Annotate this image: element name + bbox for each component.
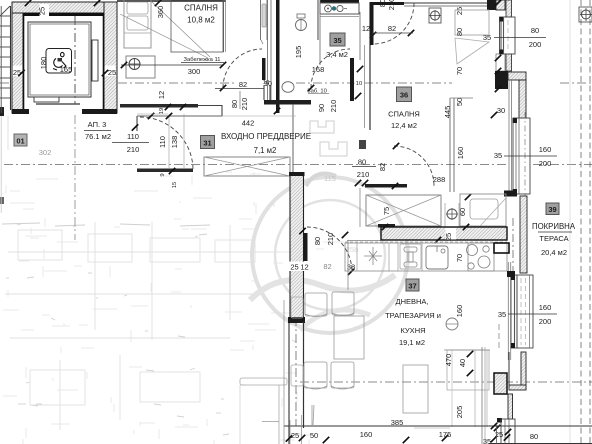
svg-text:70: 70: [455, 67, 464, 75]
svg-text:210: 210: [329, 100, 338, 113]
label 39: [546, 203, 559, 215]
svg-text:288: 288: [433, 175, 446, 184]
svg-text:442: 442: [242, 119, 255, 128]
svg-text:80: 80: [378, 0, 387, 7]
hatched pier L: [508, 72, 526, 80]
toilet bathroom: [296, 20, 307, 31]
svg-text:25: 25: [108, 68, 116, 77]
hinge block: [504, 191, 517, 197]
svg-text:160: 160: [456, 147, 465, 160]
svg-text:36: 36: [400, 91, 408, 100]
wall bathroom west: [276, 0, 280, 113]
svg-text:195: 195: [294, 46, 303, 59]
door arc room36 south: [394, 146, 434, 186]
sink oval: [282, 82, 294, 93]
elevator shaft walls (hatched): [12, 2, 23, 113]
svg-text:ТРАПЕЗАРИЯ и: ТРАПЕЗАРИЯ и: [385, 311, 441, 320]
svg-text:37: 37: [408, 282, 416, 291]
svg-text:ПОКРИВНА: ПОКРИВНА: [532, 222, 576, 231]
wall block top right: [487, 0, 496, 10]
bathroom door arc: [311, 49, 350, 88]
svg-text:12: 12: [157, 91, 166, 99]
svg-text:210: 210: [326, 233, 335, 246]
svg-text:200: 200: [529, 40, 542, 49]
svg-text:01: 01: [16, 137, 24, 146]
sofa right: [447, 350, 489, 390]
svg-text:35: 35: [483, 33, 491, 42]
elevator rail: [92, 40, 98, 81]
wall bedroom1 south: [120, 104, 198, 108]
svg-text:175: 175: [439, 430, 452, 439]
thin wall lines left of sofa: [481, 347, 483, 444]
svg-text:82: 82: [239, 80, 247, 89]
svg-text:40: 40: [458, 359, 467, 367]
hatched pier lower: [494, 373, 507, 394]
column symbol: [129, 59, 140, 70]
wall room36 south: [365, 184, 407, 188]
chairs: [305, 293, 327, 316]
svg-text:80: 80: [455, 28, 464, 36]
svg-text:470: 470: [444, 354, 453, 367]
svg-text:160: 160: [539, 145, 552, 154]
svg-text:35: 35: [483, 437, 491, 444]
wheelchair icon: [53, 52, 66, 70]
label 01: [14, 134, 27, 146]
label 35: [330, 33, 345, 46]
svg-text:25: 25: [455, 7, 464, 15]
dim 82 door: [215, 88, 264, 90]
svg-text:25: 25: [290, 263, 298, 272]
sink: [426, 246, 448, 269]
shelf left: [240, 378, 287, 385]
dim line 300: [121, 64, 224, 66]
svg-text:300: 300: [188, 67, 201, 76]
svg-text:115: 115: [324, 174, 336, 183]
plant: [311, 405, 313, 425]
door leaf kitchen: [304, 233, 308, 261]
wall thin room36 east: [449, 98, 451, 192]
svg-text:80: 80: [358, 158, 366, 167]
bed room36: [460, 194, 506, 226]
wall x296 vertical (hatched): [290, 175, 304, 322]
svg-text:12: 12: [362, 24, 370, 33]
room outline bedroom1: [171, 0, 223, 52]
svg-text:СПАЛНЯ: СПАЛНЯ: [388, 110, 420, 119]
window2 room36: [508, 80, 510, 194]
wall room36 west lower: [359, 140, 366, 149]
exterior top wall: [117, 0, 226, 2]
svg-text:СПАЛНЯ: СПАЛНЯ: [184, 4, 218, 13]
bottom dimension line: [284, 425, 592, 427]
axis line C horizontal: [300, 381, 592, 383]
terrace dashed boundary lines: [569, 0, 571, 444]
svg-text:180: 180: [39, 57, 48, 70]
hall door arc: [140, 117, 193, 170]
hatch strip below: [508, 394, 513, 419]
svg-text:80: 80: [531, 26, 539, 35]
faint ghost structures: [5, 222, 280, 430]
svg-text:160: 160: [455, 305, 464, 318]
texts 25 12: [289, 262, 310, 272]
svg-text:385: 385: [391, 418, 404, 427]
svg-text:200: 200: [539, 159, 552, 168]
black block: [497, 418, 502, 423]
svg-text:50: 50: [455, 98, 464, 106]
svg-text:70: 70: [455, 254, 464, 262]
svg-text:82: 82: [323, 262, 331, 271]
svg-text:110: 110: [158, 136, 167, 148]
svg-text:39: 39: [548, 205, 556, 214]
column grid marker right top: [579, 7, 592, 22]
wall living west: [303, 322, 305, 428]
svg-text:7,1 м2: 7,1 м2: [254, 146, 277, 155]
faint scan noise: [3, 172, 344, 444]
label 31: [201, 136, 215, 149]
wall jog hatch: [521, 352, 526, 389]
bedroom door jamb: [262, 58, 266, 80]
kitchen hatched counter: [381, 227, 507, 240]
hatch strip below window2: [520, 196, 527, 273]
leader lines to note: [120, 14, 208, 58]
kitchen cabinets: [345, 243, 507, 271]
svg-text:ВХОДНО ПРЕДДВЕРИЕ: ВХОДНО ПРЕДДВЕРИЕ: [221, 132, 311, 141]
entrance door line: [137, 113, 168, 115]
dishwasher: [364, 247, 382, 265]
window1: [500, 17, 516, 54]
svg-text:75: 75: [382, 207, 391, 215]
svg-text:АП. 3: АП. 3: [88, 120, 107, 129]
wall room36 north: [370, 2, 404, 5]
svg-text:9: 9: [160, 173, 166, 176]
coffee table: [403, 365, 428, 413]
bathroom south wall: [264, 100, 311, 105]
svg-text:80: 80: [530, 432, 538, 441]
label 36: [397, 87, 412, 102]
svg-text:19: 19: [159, 108, 165, 114]
svg-text:138: 138: [170, 136, 179, 149]
shaft inner thick edge: [23, 13, 104, 16]
svg-text:30: 30: [497, 106, 505, 115]
svg-text:10,8 м2: 10,8 м2: [187, 16, 215, 25]
svg-text:КУХНЯ: КУХНЯ: [400, 326, 425, 335]
wall under wardrobe: [378, 224, 395, 228]
svg-text:12: 12: [300, 263, 308, 272]
dining table: [334, 316, 364, 359]
svg-text:445: 445: [443, 106, 452, 119]
svg-text:19,1 м2: 19,1 м2: [399, 338, 425, 347]
oven unit: [494, 243, 509, 253]
shaft bottom wall caps: [12, 109, 29, 114]
svg-text:205: 205: [455, 406, 464, 419]
svg-text:76.1 м2: 76.1 м2: [85, 132, 111, 141]
bathroom inner wall: [317, 0, 319, 40]
svg-text:25: 25: [291, 431, 299, 440]
hall wardrobe with X: [204, 157, 290, 176]
svg-text:302: 302: [39, 148, 52, 157]
door arc room36: [374, 3, 414, 44]
fridge: [400, 244, 421, 269]
axis vertical x296: [295, 300, 297, 426]
svg-text:10: 10: [263, 80, 269, 86]
svg-text:210: 210: [240, 98, 249, 111]
svg-text:10: 10: [356, 81, 362, 87]
svg-text:210: 210: [387, 0, 396, 10]
wall 12 vertical: [370, 2, 374, 45]
svg-text:50: 50: [310, 431, 318, 440]
axis vertical x75: [74, 16, 76, 104]
svg-text:31: 31: [203, 139, 211, 148]
bedroom door arc: [223, 49, 262, 88]
axis line A horizontal: [0, 82, 22, 84]
svg-text:35: 35: [494, 151, 502, 160]
svg-text:15: 15: [172, 182, 178, 188]
window3 terrace door: [507, 262, 509, 360]
svg-text:210: 210: [127, 145, 140, 154]
svg-text:82: 82: [378, 163, 387, 171]
svg-text:35: 35: [333, 36, 341, 45]
desk near window: [455, 10, 489, 35]
wc wall: [223, 0, 225, 52]
thin wall lines wc east: [267, 0, 269, 103]
svg-text:ДНЕВНА,: ДНЕВНА,: [395, 297, 428, 306]
svg-text:60: 60: [458, 208, 467, 216]
wheelchair symbol box: [46, 49, 72, 74]
svg-text:ТЕРАСА: ТЕРАСА: [539, 234, 568, 243]
elevator door panel: [34, 97, 59, 102]
watermark stamp: [250, 121, 408, 333]
bed bedroom1: [124, 0, 151, 48]
wall east bathroom: [350, 58, 354, 101]
svg-text:12,4 м2: 12,4 м2: [391, 121, 417, 130]
wall block mid: [495, 71, 508, 89]
column marker bed: [447, 209, 457, 219]
column marker top: [429, 8, 441, 23]
wc door leaf vertical: [260, 0, 262, 40]
stove: [468, 243, 494, 271]
window bottom: [501, 419, 515, 444]
svg-text:200: 200: [539, 317, 552, 326]
bathroom top wall: [320, 0, 359, 3]
staircase edge: [0, 6, 11, 110]
kitchen door arc: [307, 227, 352, 272]
svg-text:160: 160: [539, 303, 552, 312]
hall door leaf: [137, 169, 193, 173]
svg-text:210: 210: [357, 170, 370, 179]
washing machine counter: [320, 3, 359, 14]
drain circle: [446, 318, 458, 330]
svg-text:110: 110: [127, 132, 139, 141]
night table: [126, 56, 155, 78]
svg-text:25: 25: [38, 7, 47, 15]
axis line B horizontal: [4, 164, 509, 166]
svg-text:165: 165: [60, 65, 73, 74]
label 37: [406, 279, 419, 291]
svg-text:360: 360: [156, 6, 165, 19]
wardrobe with X: [366, 195, 441, 226]
svg-text:160: 160: [360, 430, 373, 439]
svg-text:80: 80: [230, 100, 239, 108]
svg-text:90: 90: [317, 104, 326, 112]
svg-text:Забележка 11: Забележка 11: [184, 57, 221, 63]
elevator car: [28, 22, 91, 97]
svg-text:25: 25: [444, 233, 453, 241]
svg-text:35: 35: [498, 310, 506, 319]
svg-text:82: 82: [388, 24, 396, 33]
axis dash inside shaft: [74, 16, 76, 104]
svg-text:80: 80: [313, 237, 322, 245]
svg-text:20,4 м2: 20,4 м2: [541, 248, 567, 257]
